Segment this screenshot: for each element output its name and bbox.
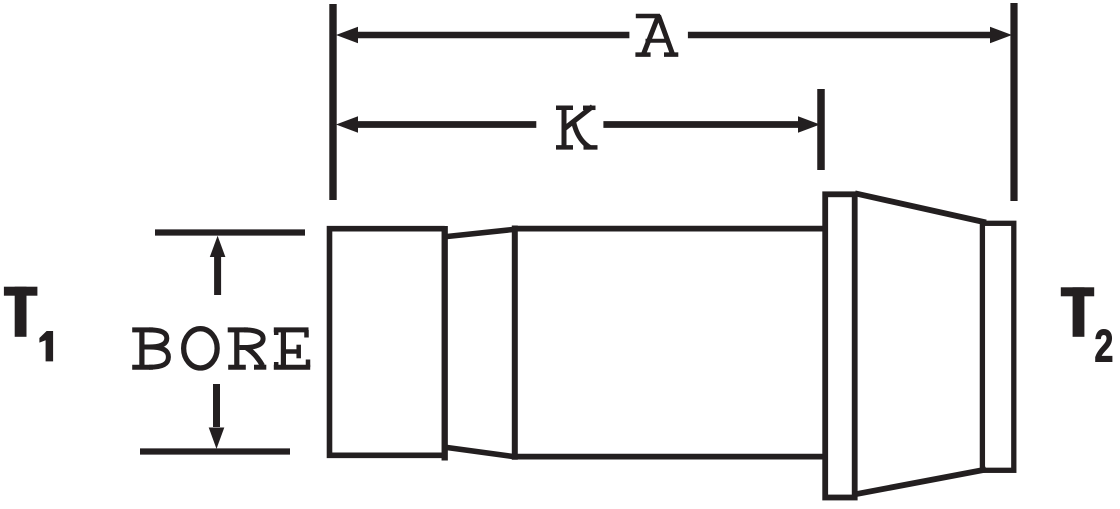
fitting end cap (982, 223, 1013, 470)
dimension line A right segment (688, 32, 1000, 39)
label T2 (1061, 287, 1094, 337)
dimension line K right segment (603, 121, 808, 128)
label K (serif letter) (556, 106, 598, 150)
extension line left (A/K datum) (329, 4, 336, 200)
fitting nut section (left rectangle) (330, 229, 445, 456)
arrowhead K left (336, 116, 358, 133)
BORE up arrow (214, 256, 221, 295)
fitting cone top edge (855, 193, 986, 222)
fitting taper top edge (447, 230, 513, 237)
arrowhead A right (990, 27, 1012, 43)
BORE down arrow (213, 384, 220, 427)
BORE dimension top tick (155, 229, 305, 235)
arrowhead A left (336, 27, 358, 43)
label BORE : letter B (132, 330, 168, 367)
arrowhead K right (798, 116, 820, 133)
dimension line A left segment (348, 32, 629, 39)
dimension line K left segment (347, 121, 536, 128)
extension line right (A) (1010, 3, 1017, 201)
fitting taper bottom edge (447, 448, 513, 457)
label A (serif letter) (635, 16, 678, 55)
label BORE : letter O (184, 329, 218, 368)
BORE dimension bottom tick (140, 448, 290, 454)
label T1 (4, 287, 38, 337)
fitting cone bottom edge (855, 470, 986, 495)
label BORE : letter E (274, 330, 310, 367)
fitting flange (825, 194, 855, 497)
label BORE : letter R (228, 330, 267, 367)
fitting body bottom edge (512, 454, 827, 460)
fitting body top edge (512, 226, 827, 232)
extension tick K right (817, 89, 825, 170)
fitting body left line (vertical 2) (512, 226, 518, 460)
svg-text:2: 2 (1094, 322, 1113, 372)
fitting shoulder line (vertical 1) (442, 226, 448, 461)
